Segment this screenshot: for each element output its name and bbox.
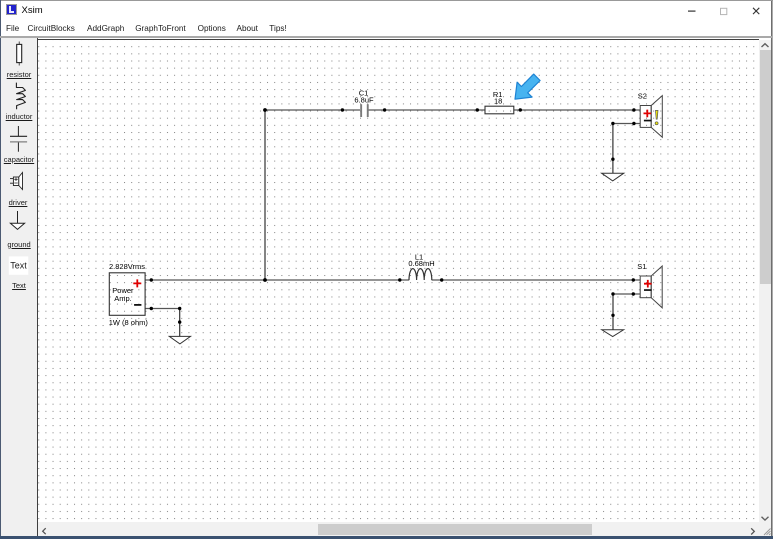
junction amp plus pin (150, 278, 153, 281)
junction node IN on bus (263, 278, 267, 282)
junction amp minus corner (178, 307, 181, 310)
vertical scrollbar track (759, 40, 771, 522)
scrollbar corner (759, 522, 771, 536)
menu bar (1, 22, 771, 36)
vertical scrollbar down button (759, 512, 771, 524)
horizontal scrollbar left button (38, 522, 52, 536)
resize grip (759, 522, 772, 536)
inductor icon (16, 83, 25, 110)
vertical scrollbar thumb (760, 50, 771, 284)
S2 minus pin mark (644, 120, 652, 122)
cursor arrow pointing at R1 (515, 74, 540, 99)
horizontal scrollbar track (38, 522, 759, 536)
junction G2 pin (611, 158, 614, 161)
toolbar label driver (0, 198, 36, 207)
window button close (740, 0, 772, 22)
svg-text:18: 18 (494, 97, 502, 106)
inductor L1 (408, 252, 434, 280)
horizontal scrollbar thumb (318, 524, 592, 535)
junction G1 pin (178, 320, 181, 323)
canvas borders (37, 38, 38, 536)
wire S2 minus down to ground G2 (612, 124, 614, 174)
wire R1 right pin to S2 plus pin (514, 109, 640, 111)
ground G3 (S1) (602, 330, 624, 337)
toolbar (1, 38, 37, 536)
junction L1 left pin (398, 278, 401, 281)
toolbar label capacitor (1, 155, 37, 164)
junction node IN top corner (263, 108, 267, 112)
wire vertical node IN down to main bus (264, 110, 266, 280)
junction R1 left pin (476, 108, 479, 111)
window button maximize (708, 0, 740, 22)
ground G2 (S2) (602, 173, 624, 181)
svg-text:2.828Vrms: 2.828Vrms (109, 262, 145, 271)
wire node IN to C1 left pin (265, 109, 360, 111)
driver S2 (638, 91, 663, 137)
app icon (6, 4, 17, 15)
svg-text:S2: S2 (638, 91, 647, 100)
S2 plus pin mark (644, 110, 652, 118)
wire S2 minus pin leftward (613, 123, 640, 125)
capacitor icon (10, 126, 27, 152)
wire S1 minus down to ground G3 (612, 294, 614, 330)
wire S1 minus pin leftward (613, 293, 640, 295)
toolbar label inductor (1, 112, 37, 121)
junction R1 right pin (519, 108, 522, 111)
S1 cone (651, 266, 662, 308)
wire L1 right pin to S1 plus pin (432, 279, 641, 281)
wire amp minus rightward (145, 308, 180, 310)
window button minimize (676, 0, 708, 22)
horizontal scrollbar right button (745, 522, 759, 536)
junction S1 plus pin (632, 278, 635, 281)
junction amp minus pin (150, 307, 153, 310)
svg-text:6.8uF: 6.8uF (354, 95, 374, 104)
Text button (9, 256, 29, 274)
junction S2 ground corner (611, 122, 614, 125)
wire amp minus down to ground G1 (179, 309, 181, 337)
resistor R1 (485, 90, 514, 114)
S2 cone (651, 96, 662, 138)
toolbar label ground (1, 240, 37, 249)
junction S1 ground corner (611, 292, 614, 295)
S2 body (640, 106, 651, 128)
ground icon (10, 211, 24, 229)
junction G3 pin (611, 314, 614, 317)
junction S1 minus pin (632, 292, 635, 295)
junction C1 right pin (383, 108, 386, 111)
S1 minus pin mark (644, 289, 652, 291)
S2 warning mark (656, 110, 659, 119)
svg-text:0.68mH: 0.68mH (408, 259, 434, 268)
S1 plus pin mark (644, 280, 652, 288)
vertical scrollbar up button (759, 40, 771, 52)
svg-text:S1: S1 (637, 262, 646, 271)
wire C1 right pin to R1 left pin (368, 109, 485, 111)
junction S2 plus pin (632, 108, 635, 111)
power amp U1 (109, 262, 149, 327)
S1 body (640, 276, 651, 298)
svg-text:Amp.: Amp. (114, 294, 132, 303)
ground G1 (amp) (169, 336, 190, 344)
window title text (22, 5, 43, 16)
svg-text:1W (8 ohm): 1W (8 ohm) (109, 318, 149, 327)
resistor icon (17, 42, 22, 66)
toolbar label resistor (1, 70, 37, 79)
driver S1 (637, 262, 662, 308)
driver icon (10, 173, 23, 190)
U1 minus pin mark (134, 304, 141, 306)
title bar (1, 1, 771, 22)
wire amp plus to L1 left pin (145, 279, 409, 281)
capacitor C1 (354, 88, 374, 117)
junction S2 minus pin (632, 122, 635, 125)
U1 plus pin mark (133, 279, 141, 287)
toolbar label Text (1, 281, 37, 290)
junction L1 right pin (440, 278, 443, 281)
junction C1 left pin (341, 108, 344, 111)
svg-text:Text: Text (10, 261, 27, 271)
